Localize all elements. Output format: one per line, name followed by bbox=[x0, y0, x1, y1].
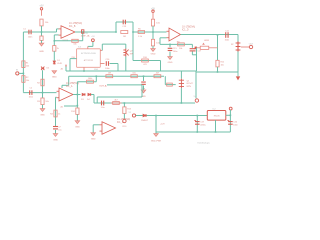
svg-text:100n: 100n bbox=[28, 36, 33, 38]
svg-text:10k: 10k bbox=[26, 80, 30, 82]
svg-text:GND: GND bbox=[52, 77, 57, 79]
svg-text:GND_PWR: GND_PWR bbox=[151, 140, 162, 142]
svg-text:+12V: +12V bbox=[160, 123, 165, 125]
svg-text:4148: 4148 bbox=[57, 63, 62, 65]
svg-text:GND: GND bbox=[39, 51, 44, 53]
svg-text:PB0: PB0 bbox=[72, 57, 75, 59]
svg-text:D5: D5 bbox=[47, 68, 50, 70]
svg-text:Q1: Q1 bbox=[187, 80, 191, 82]
svg-text:D4: D4 bbox=[87, 99, 91, 101]
svg-text:10k: 10k bbox=[179, 48, 183, 50]
svg-text:1.5k: 1.5k bbox=[138, 36, 143, 38]
svg-text:100n: 100n bbox=[29, 96, 33, 98]
svg-text:GND: GND bbox=[151, 54, 156, 56]
svg-text:10k: 10k bbox=[221, 65, 224, 67]
svg-text:C11: C11 bbox=[225, 30, 230, 32]
svg-text:X2-1: X2-1 bbox=[122, 126, 127, 128]
svg-text:A1: A1 bbox=[61, 106, 64, 109]
svg-text:BC547: BC547 bbox=[187, 83, 194, 85]
svg-text:C13: C13 bbox=[122, 26, 127, 28]
svg-text:JU-17B(5Vk): JU-17B(5Vk) bbox=[182, 26, 195, 28]
svg-text:4k7: 4k7 bbox=[114, 99, 118, 101]
svg-text:470: 470 bbox=[143, 64, 147, 66]
svg-text:C16: C16 bbox=[105, 59, 110, 61]
svg-text:1N4007: 1N4007 bbox=[141, 120, 149, 122]
svg-text:1M: 1M bbox=[123, 36, 126, 38]
svg-text:1k: 1k bbox=[57, 48, 60, 50]
svg-text:IC1_D: IC1_D bbox=[182, 29, 189, 31]
svg-text:10k: 10k bbox=[26, 65, 30, 67]
svg-text:KickStartups: KickStartups bbox=[198, 142, 211, 145]
svg-text:R1: R1 bbox=[26, 62, 30, 64]
svg-text:C20: C20 bbox=[233, 122, 238, 124]
svg-text:1k: 1k bbox=[58, 113, 61, 115]
svg-text:10k: 10k bbox=[73, 44, 77, 46]
svg-text:100n: 100n bbox=[173, 51, 178, 53]
svg-text:GND: GND bbox=[91, 139, 96, 141]
svg-text:10k: 10k bbox=[132, 73, 136, 75]
svg-text:C17: C17 bbox=[198, 50, 203, 52]
svg-text:R13: R13 bbox=[127, 108, 132, 110]
svg-text:GND: GND bbox=[75, 127, 80, 129]
svg-text:GND: GND bbox=[53, 140, 58, 142]
svg-text:R4: R4 bbox=[50, 113, 54, 115]
svg-text:R2: R2 bbox=[26, 77, 30, 79]
svg-text:GND: GND bbox=[40, 114, 45, 116]
svg-text:IC1_B: IC1_B bbox=[69, 26, 76, 28]
svg-text:10k: 10k bbox=[45, 101, 49, 103]
svg-text:C1: C1 bbox=[23, 28, 27, 30]
svg-text:GND: GND bbox=[168, 62, 173, 64]
svg-text:OUT_A: OUT_A bbox=[99, 85, 107, 88]
svg-text:R2: R2 bbox=[37, 82, 41, 84]
svg-text:10u: 10u bbox=[58, 129, 61, 131]
svg-text:ATTINY85-20SU: ATTINY85-20SU bbox=[81, 52, 96, 55]
svg-text:D3: D3 bbox=[81, 99, 85, 101]
svg-text:IC3: IC3 bbox=[78, 47, 82, 49]
svg-text:C2: C2 bbox=[30, 88, 33, 90]
svg-text:X1: X1 bbox=[129, 112, 132, 114]
svg-text:IC1_A: IC1_A bbox=[66, 85, 73, 88]
svg-text:IC1_C: IC1_C bbox=[117, 122, 124, 124]
svg-text:100n: 100n bbox=[225, 39, 230, 41]
svg-text:JU-17B(5Vk): JU-17B(5Vk) bbox=[69, 23, 82, 25]
svg-text:C15: C15 bbox=[173, 48, 178, 50]
svg-text:ATTINY85: ATTINY85 bbox=[84, 59, 94, 62]
svg-text:R12: R12 bbox=[221, 62, 226, 64]
svg-text:C7: C7 bbox=[58, 126, 61, 128]
svg-text:A2: A2 bbox=[61, 68, 63, 71]
svg-text:JU-17B(5Vk): JU-17B(5Vk) bbox=[117, 119, 130, 121]
svg-text:NPN: NPN bbox=[187, 86, 192, 88]
svg-text:2200u: 2200u bbox=[200, 124, 206, 126]
svg-text:4k7: 4k7 bbox=[156, 73, 160, 75]
svg-text:C19: C19 bbox=[200, 122, 205, 124]
svg-text:1M: 1M bbox=[108, 73, 111, 75]
svg-text:1.0u: 1.0u bbox=[101, 107, 106, 109]
svg-text:R3: R3 bbox=[37, 101, 41, 103]
svg-text:R14: R14 bbox=[71, 111, 76, 113]
svg-text:SP: SP bbox=[231, 44, 234, 46]
svg-text:100n: 100n bbox=[233, 124, 237, 126]
svg-text:LM35: LM35 bbox=[204, 40, 210, 42]
svg-text:10k: 10k bbox=[156, 22, 160, 24]
svg-text:+5V: +5V bbox=[91, 36, 95, 38]
svg-text:OUT: OUT bbox=[249, 43, 254, 45]
svg-text:IN: IN bbox=[16, 70, 19, 72]
svg-text:100n: 100n bbox=[105, 68, 110, 70]
svg-text:78L05: 78L05 bbox=[213, 116, 220, 118]
svg-text:10k: 10k bbox=[45, 22, 49, 24]
